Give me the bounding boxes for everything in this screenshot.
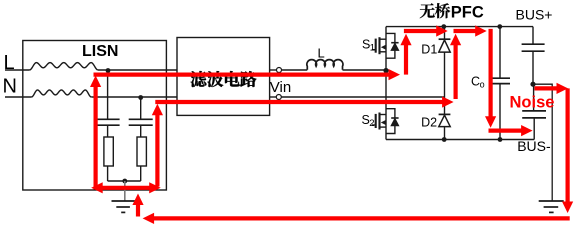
inductor LISN choke (L line)	[30, 63, 99, 70]
wire D-leg	[444, 27, 446, 140]
svg-text:D2: D2	[421, 115, 437, 129]
wire BUS+ top rail	[386, 26, 533, 28]
wire S-leg	[385, 27, 387, 140]
wire LISN bottom junction	[108, 180, 141, 182]
transistor S1	[372, 33, 399, 58]
wire noise path up D1 (red)	[454, 45, 458, 99]
wire Vin+ to inductor	[282, 69, 308, 71]
wire inductor to phase node	[343, 69, 387, 71]
wire L line to filter	[98, 69, 177, 71]
inductor L (boost)	[307, 60, 343, 70]
svg-text:PFC: PFC	[451, 3, 484, 21]
capacitor Y1	[522, 43, 545, 45]
wire N input stub	[5, 96, 32, 98]
svg-text:o: o	[480, 80, 485, 90]
diode D1	[439, 38, 451, 40]
svg-text:Noise: Noise	[510, 94, 555, 112]
wire noise path along N line (red)	[155, 100, 443, 104]
resistor LISN R2	[137, 137, 146, 166]
capacitor Y2	[522, 110, 546, 112]
node phase A	[383, 68, 388, 73]
svg-text:D1: D1	[421, 42, 437, 56]
wire L input stub	[5, 69, 30, 71]
wire noise return into LISN ground (red)	[136, 205, 140, 217]
node noise midpoint	[530, 82, 535, 87]
node LISN ground junction	[122, 179, 127, 184]
node Co bottom	[498, 137, 503, 142]
label 无桥PFC title	[420, 3, 451, 18]
wire noise path top rail 1 (red)	[404, 29, 437, 33]
node D-leg top	[441, 24, 446, 29]
svg-text:1: 1	[370, 42, 375, 53]
wire noise path to Y2 (red)	[489, 129, 523, 133]
wire noise path down Co (red)	[489, 29, 493, 117]
wire noise spread LISN ground (red)	[102, 186, 150, 190]
wire noise path top rail 2 (red)	[454, 29, 477, 33]
resistor LISN R1	[104, 137, 113, 166]
wire C1 to R1	[107, 125, 109, 137]
svg-text:BUS+: BUS+	[516, 7, 553, 23]
node junction L-branch	[106, 68, 111, 73]
wire C2 to R2	[140, 125, 142, 137]
svg-text:2: 2	[369, 118, 374, 129]
node D-leg bottom	[442, 137, 447, 142]
wire N line to filter	[91, 96, 177, 98]
inductor LISN choke (N line)	[32, 90, 92, 97]
node junction N-branch	[138, 95, 143, 100]
terminal Vin-	[270, 96, 277, 98]
wire noise path down earth (red)	[565, 88, 569, 202]
ground LISN stem	[124, 181, 126, 201]
ground LISN symbol	[112, 200, 135, 202]
wire Y1 to midpoint	[532, 51, 534, 84]
ground earth symbol	[539, 200, 564, 202]
capacitor Co	[492, 77, 510, 79]
wire noise path midpoint to earth (red)	[535, 86, 558, 90]
transistor S2	[372, 109, 399, 134]
wire BUS+ to Y-cap	[532, 27, 534, 45]
svg-text:L: L	[318, 46, 325, 61]
LISN box	[23, 41, 167, 191]
capacitor LISN C1	[96, 118, 120, 120]
wire Vin- to D-leg	[281, 96, 444, 98]
node Co top	[497, 24, 502, 29]
svg-text:Vin: Vin	[270, 79, 291, 96]
label 滤波电路 (filter circuit)	[190, 71, 256, 87]
wire Co leg	[499, 27, 501, 79]
wire LISN branch 2 upper	[140, 98, 142, 120]
svg-text:LISN: LISN	[82, 43, 118, 60]
wire Y2 to BUS-	[533, 118, 535, 140]
filter circuit box	[177, 38, 270, 116]
wire BUS- bottom rail	[386, 139, 534, 141]
wire LISN branch 1 upper	[107, 71, 109, 120]
wire R2 to bottom	[140, 166, 142, 181]
svg-text:N: N	[3, 76, 17, 98]
wire noise path up S1 (red)	[404, 45, 408, 75]
wire noise path up LISN branch1 (red)	[93, 86, 97, 190]
svg-text:BUS-: BUS-	[517, 138, 551, 154]
wire midpoint to Y2	[533, 84, 535, 111]
wire noise path along L line (red)	[94, 72, 390, 76]
wire noise return bottom (red)	[154, 216, 570, 220]
capacitor LISN C2	[129, 118, 153, 120]
wire R1 to bottom	[107, 166, 109, 181]
terminal Vin+	[270, 69, 277, 71]
diode D2	[439, 113, 451, 115]
wire noise path up LISN branch2 (red)	[155, 114, 159, 187]
wire midpoint to earth	[533, 84, 552, 201]
